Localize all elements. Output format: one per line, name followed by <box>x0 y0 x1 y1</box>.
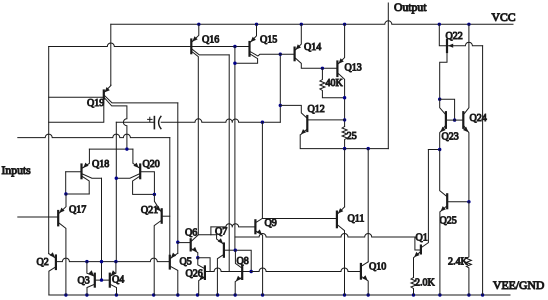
transistor Q22 <box>439 24 482 99</box>
svg-text:Q18: Q18 <box>92 159 109 170</box>
svg-text:Q6: Q6 <box>185 228 197 239</box>
svg-text:VCC: VCC <box>492 11 516 24</box>
node dot Q25 base / Q24 emitter <box>467 200 470 203</box>
svg-text:Q8: Q8 <box>237 256 249 267</box>
svg-text:Q16: Q16 <box>202 35 219 46</box>
wire Q8/Q10 base line y=271.5 <box>251 268 360 271</box>
svg-text:Q7: Q7 <box>215 227 227 238</box>
transistor Q10 <box>361 262 368 295</box>
wire mirror bias line y=46.5 <box>49 43 249 46</box>
transistor Q24 <box>455 24 469 202</box>
wire upper input line <box>18 134 170 138</box>
wire Q17-Q18 node line y=194 <box>66 193 90 195</box>
transistor Q1 <box>414 150 429 278</box>
resistor R2 25 <box>342 127 347 149</box>
svg-text:Q21: Q21 <box>141 205 158 216</box>
wire Q19 collector1 drop x=177.8 <box>177 103 179 253</box>
wire Q6 emitter branch to Q26 base <box>198 258 210 272</box>
transistor Q12 <box>280 105 388 148</box>
node dots on mirror line y=261.6 <box>85 260 117 263</box>
wire Q7 base corner to Q8 base line <box>235 250 251 271</box>
svg-text:Q2: Q2 <box>37 257 49 268</box>
wire VEE bottom rail <box>49 294 510 296</box>
transistor Q14 <box>295 24 337 68</box>
node dots Q13 collector chain <box>343 96 346 122</box>
svg-text:40K: 40K <box>326 78 344 89</box>
transistor Q26 <box>199 266 230 295</box>
transistor Q15 <box>235 24 294 63</box>
resistor R4 2.4K <box>466 202 471 295</box>
node dot Q22 base node <box>438 98 441 101</box>
node dot Q17 emitter/Q18 base <box>64 192 67 195</box>
node dot Q20 base/Q21 emitter <box>153 193 156 196</box>
capacitor C1 compensation line <box>116 116 280 128</box>
transistor Q23 <box>440 99 455 149</box>
transistor Q3 <box>87 262 110 295</box>
transistor Q5 <box>170 253 178 295</box>
transistor Q25 <box>440 150 469 296</box>
transistor Q13 <box>337 24 344 126</box>
node dot cap line / Q9 collector <box>261 121 264 124</box>
svg-text:Q15: Q15 <box>260 35 277 46</box>
wire rail left end drop to Q19 emitter <box>110 24 112 85</box>
wire Q18 base corner down to node <box>65 172 67 194</box>
wire Q18 collector1 drop x=101.5 <box>101 178 103 280</box>
svg-text:Q3: Q3 <box>78 276 90 287</box>
transistor Q16 <box>191 24 229 235</box>
transistor Q11 <box>337 207 345 295</box>
node dot Q23 emitter / Q25 collector / Q1 collector <box>438 148 441 151</box>
resistor R1 40K <box>320 68 345 97</box>
transistor Q19 <box>49 85 178 149</box>
svg-text:2.4K: 2.4K <box>448 257 469 268</box>
wire Q16 collector2 drop x=229.2 <box>228 55 230 272</box>
svg-text:Q17: Q17 <box>69 205 86 216</box>
transistor Q17 <box>58 194 66 295</box>
node bias line dot at Q15 tie <box>233 45 236 48</box>
transistor Q4 <box>110 262 117 295</box>
node Output line <box>387 3 389 149</box>
wire Q18-Q20 emitter rail y=149.1 <box>89 148 132 150</box>
wire Q1 base jog <box>415 237 421 250</box>
node dot Q8 base corner <box>250 270 253 273</box>
node dot Q6 emitter node <box>196 256 199 259</box>
svg-text:Q22: Q22 <box>446 31 463 42</box>
wire Q13 collector to Q11 emitter <box>344 149 346 207</box>
wire left bias vertical x=48.7 down to Q2 emitter <box>48 47 50 254</box>
wire Q15 diode tie vertical x=234.9 <box>234 47 236 251</box>
wire cap line right end up to Q14 base line <box>279 54 281 122</box>
svg-text:Q9: Q9 <box>265 218 277 229</box>
svg-text:Q11: Q11 <box>348 214 365 225</box>
wire Q1 collector link to Q23 emitter <box>428 149 439 151</box>
svg-text:Q19: Q19 <box>87 98 104 109</box>
svg-text:25: 25 <box>347 131 357 142</box>
svg-text:Q10: Q10 <box>369 262 386 273</box>
svg-text:2.0K: 2.0K <box>415 278 436 289</box>
node dots x=280.4 <box>279 53 282 108</box>
transistor Q18 <box>66 149 102 194</box>
wire Q6 emitter to Q26 collector diagonal <box>198 258 205 269</box>
node dot Q19 collector to emitter rail <box>125 147 128 150</box>
node dot Q6 base tap <box>176 241 179 244</box>
wire Q9 collector up to cap line <box>261 122 263 218</box>
svg-text:Q5: Q5 <box>180 257 192 268</box>
transistor Q6 <box>178 235 199 258</box>
node dot Q3/Q4 base feed <box>100 278 103 281</box>
resistor R3 2.0K <box>411 278 416 296</box>
svg-text:Q1: Q1 <box>416 233 428 244</box>
wire Q9 base line y=226.9 <box>211 224 255 227</box>
node dot x=234.9 y=63.2 <box>233 62 236 65</box>
svg-text:Inputs: Inputs <box>2 164 32 177</box>
svg-text:Q26: Q26 <box>186 269 203 280</box>
wire upper input vertical to Q5 base <box>169 138 171 257</box>
wire Q19 base line <box>49 96 103 98</box>
wire Q23/Q24 base feed <box>440 99 455 119</box>
node dot Q7 base node <box>234 249 237 252</box>
wire Q9 base line riser x=210.9 <box>210 227 212 235</box>
node dots output line <box>343 147 370 150</box>
transistor Q9 <box>255 218 262 295</box>
node dot 40K top <box>321 67 324 70</box>
svg-text:Q4: Q4 <box>112 275 124 286</box>
svg-text:VEE/GND: VEE/GND <box>493 279 544 292</box>
transistor Q7 <box>217 235 236 295</box>
node VCC rail junction dots <box>197 23 470 26</box>
wire Q9/Q11 base line y=218.5 <box>262 218 336 220</box>
wire VCC top rail <box>111 21 513 24</box>
svg-text:Q25: Q25 <box>440 216 457 227</box>
svg-text:Output: Output <box>394 1 427 14</box>
node VEE rail junction dots <box>64 293 484 296</box>
svg-text:Q24: Q24 <box>470 113 487 124</box>
svg-text:Q14: Q14 <box>304 42 321 53</box>
wire Q6 collector to Q7 emitter line y=234.8 <box>198 234 216 236</box>
wire Q26/Q8 base line continues <box>229 271 242 273</box>
svg-text:Q23: Q23 <box>442 132 459 143</box>
node dot cap line / Q19 coll1 <box>0 0 1 1</box>
transistor Q2 <box>49 252 170 295</box>
transistor Q21 <box>154 194 170 295</box>
wire long line y=237 to Q1 base <box>235 234 415 238</box>
svg-text:Q13: Q13 <box>345 63 362 74</box>
wire compensation vertical x=116.3 <box>115 122 117 261</box>
wire lower input line to Q17 base <box>18 216 57 218</box>
transistor Q20 <box>116 149 154 194</box>
svg-text:Q20: Q20 <box>143 159 160 170</box>
node dot compensation line tap <box>115 177 118 180</box>
svg-text:Q12: Q12 <box>308 104 325 115</box>
wire Q22 emitter drop to VEE rail x=482.6 <box>482 46 484 295</box>
node dot Q23/Q24 common base <box>453 118 456 121</box>
wire Q10 collector vertical <box>367 149 369 262</box>
transistor Q8 <box>235 250 251 295</box>
